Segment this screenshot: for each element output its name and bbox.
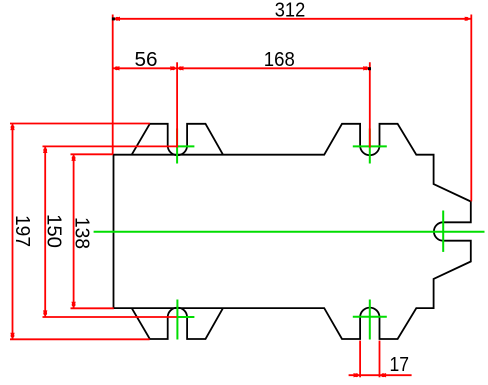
center mark slot top-left [177, 129, 195, 164]
arrow 312 right [465, 17, 472, 21]
svg-text:197: 197 [11, 215, 34, 247]
dimension 138 vertical [71, 154, 114, 308]
svg-text:138: 138 [70, 217, 93, 249]
dimension 56/168 line [113, 62, 370, 147]
arrow 17 left [354, 373, 361, 377]
center mark slot bottom-left [177, 300, 195, 340]
arrow 150 bottom [43, 310, 47, 317]
ext line 150 bottom [43, 316, 177, 318]
ext line left 312 [112, 15, 114, 155]
arrow 197 bottom [10, 333, 14, 340]
ear pad bottom-left [132, 308, 223, 339]
arrow 138 bottom [71, 302, 75, 309]
arrow 138 top [71, 154, 75, 161]
svg-text:56: 56 [135, 48, 158, 71]
dimension 312 line [113, 15, 472, 202]
svg-text:168: 168 [264, 48, 295, 71]
ext line 138 top [71, 153, 114, 155]
ext line 17 left [359, 341, 361, 378]
svg-text:312: 312 [275, 0, 306, 22]
center mark slot top-right [353, 129, 387, 164]
svg-text:150: 150 [42, 214, 65, 248]
arrow 17 right [380, 373, 387, 377]
center mark right notch [442, 211, 444, 252]
ext line slot2 center [369, 62, 371, 147]
black dot 312 left [112, 17, 115, 20]
arrow 312 left [113, 17, 471, 21]
svg-text:17: 17 [390, 353, 410, 376]
ext line 138 bottom [71, 307, 114, 309]
dimension 197 vertical [10, 124, 150, 340]
black dot 168 right [368, 67, 371, 70]
arrow 168 right [363, 66, 370, 70]
ext line 17 right [379, 341, 381, 378]
ext line slot1 center [176, 62, 178, 147]
ear pad top-left [132, 124, 223, 155]
arrow 56 right [170, 66, 177, 70]
arrow 168 left [177, 66, 184, 70]
dimension 150 vertical [43, 146, 177, 317]
centerline horizontal (green) [94, 231, 485, 233]
arrow 197 top [10, 124, 14, 131]
ext line 150 top [43, 145, 177, 147]
ext line 197 top [10, 123, 150, 125]
center mark slot bottom-right [353, 300, 387, 340]
ext line right 312 [470, 15, 472, 202]
part body outline [114, 124, 471, 339]
ext line 197 bottom [10, 338, 150, 340]
dimension 17 bottom right [349, 341, 412, 378]
arrow 150 top [43, 146, 47, 153]
arrow 56 left [113, 66, 120, 70]
